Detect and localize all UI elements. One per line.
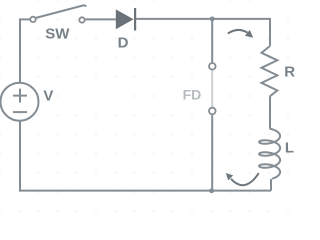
wire left-top: from source top up and over to switch	[20, 19, 30, 82]
wire switch to diode	[85, 18, 116, 20]
wire left-bottom: source bottom down	[19, 121, 21, 191]
voltage source minus sign	[13, 111, 27, 113]
switch SW pole terminal	[30, 17, 35, 22]
svg-text:L: L	[285, 139, 294, 156]
wire junction down to FD top terminal	[211, 19, 213, 62]
svg-text:SW: SW	[45, 25, 70, 42]
wire diode to top-right corner	[135, 18, 270, 20]
switch SW throw terminal	[79, 17, 84, 22]
node FD top terminal	[209, 63, 216, 70]
voltage source plus sign	[13, 89, 27, 103]
arrow current bottom head	[226, 173, 233, 180]
node junction bottom	[209, 188, 214, 193]
svg-text:D: D	[118, 35, 129, 52]
diode D triangle	[116, 9, 134, 29]
wire inductor bottom to bottom rail	[270, 179, 272, 191]
svg-text:R: R	[284, 63, 295, 80]
wire FD light link between terminals	[211, 70, 213, 107]
arrow current bottom arc	[231, 173, 259, 185]
wire resistor to inductor	[269, 96, 271, 128]
node junction top	[210, 16, 215, 21]
inductor L coil	[259, 129, 280, 179]
svg-text:FD: FD	[183, 87, 202, 103]
voltage source V circle	[1, 83, 39, 121]
arrow current top arc	[228, 30, 248, 34]
resistor R zigzag	[262, 46, 278, 96]
arrow current top head	[245, 30, 253, 38]
diode D cathode bar	[134, 8, 136, 31]
switch SW blade	[36, 5, 87, 18]
wire bottom rail	[19, 190, 271, 192]
node FD bottom terminal	[209, 108, 216, 115]
svg-text:V: V	[43, 88, 53, 105]
wire top-right vertical down to resistor	[269, 18, 271, 46]
wire FD bottom terminal to bottom rail	[211, 115, 213, 190]
